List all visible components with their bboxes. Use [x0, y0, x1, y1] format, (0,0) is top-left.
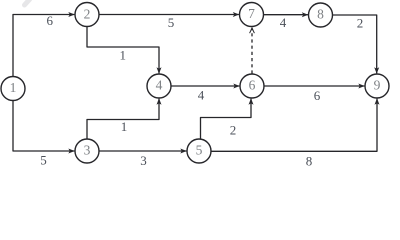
svg-text:2: 2 [230, 123, 237, 138]
node 2 [75, 3, 99, 27]
svg-text:5: 5 [168, 15, 175, 30]
svg-text:1: 1 [121, 119, 128, 134]
wire edge 2->7 weight 5 [99, 14, 239, 16]
wire edge 5->9 weight 8 [211, 99, 377, 152]
svg-text:7: 7 [248, 6, 255, 21]
svg-text:9: 9 [374, 78, 381, 93]
wire edge 1->3 weight 5 [13, 101, 74, 151]
wire edge 2->4 weight 1 [87, 27, 159, 74]
svg-text:5: 5 [40, 153, 47, 168]
wire edge 8->9 weight 2 [333, 15, 377, 73]
svg-text:4: 4 [156, 78, 163, 93]
svg-text:3: 3 [140, 153, 147, 168]
svg-text:8: 8 [317, 7, 324, 22]
svg-text:4: 4 [198, 88, 205, 103]
svg-text:2: 2 [84, 7, 91, 22]
node 6 [240, 74, 264, 98]
svg-text:5: 5 [196, 143, 203, 158]
svg-text:4: 4 [280, 15, 287, 30]
wire edge 4->6 weight 4 [171, 85, 239, 87]
wire edge 3->5 weight 3 [99, 150, 186, 152]
wire edge 7->8 weight 4 [264, 14, 308, 16]
svg-text:2: 2 [357, 15, 364, 30]
svg-text:6: 6 [249, 78, 256, 93]
svg-text:8: 8 [306, 153, 313, 168]
node 9 [365, 74, 389, 98]
svg-text:6: 6 [46, 13, 53, 28]
node 7 [240, 3, 264, 27]
wire dashed edge 6->7 [251, 28, 253, 73]
node 4 [147, 74, 171, 98]
wire edge 1->2 weight 6 [13, 15, 74, 77]
node 1 [1, 77, 25, 101]
node 3 [75, 139, 99, 163]
wire edge 5->6 weight 2 [201, 99, 252, 139]
smudge artifact top-left [25, 0, 30, 5]
node 8 [309, 3, 333, 27]
svg-text:3: 3 [84, 143, 91, 158]
wire edge 6->9 weight 6 [264, 85, 364, 87]
svg-text:1: 1 [10, 80, 17, 95]
wire edge 3->4 weight 1 [87, 99, 159, 139]
svg-text:1: 1 [119, 48, 126, 63]
node 5 [187, 139, 211, 163]
svg-text:6: 6 [314, 88, 321, 103]
